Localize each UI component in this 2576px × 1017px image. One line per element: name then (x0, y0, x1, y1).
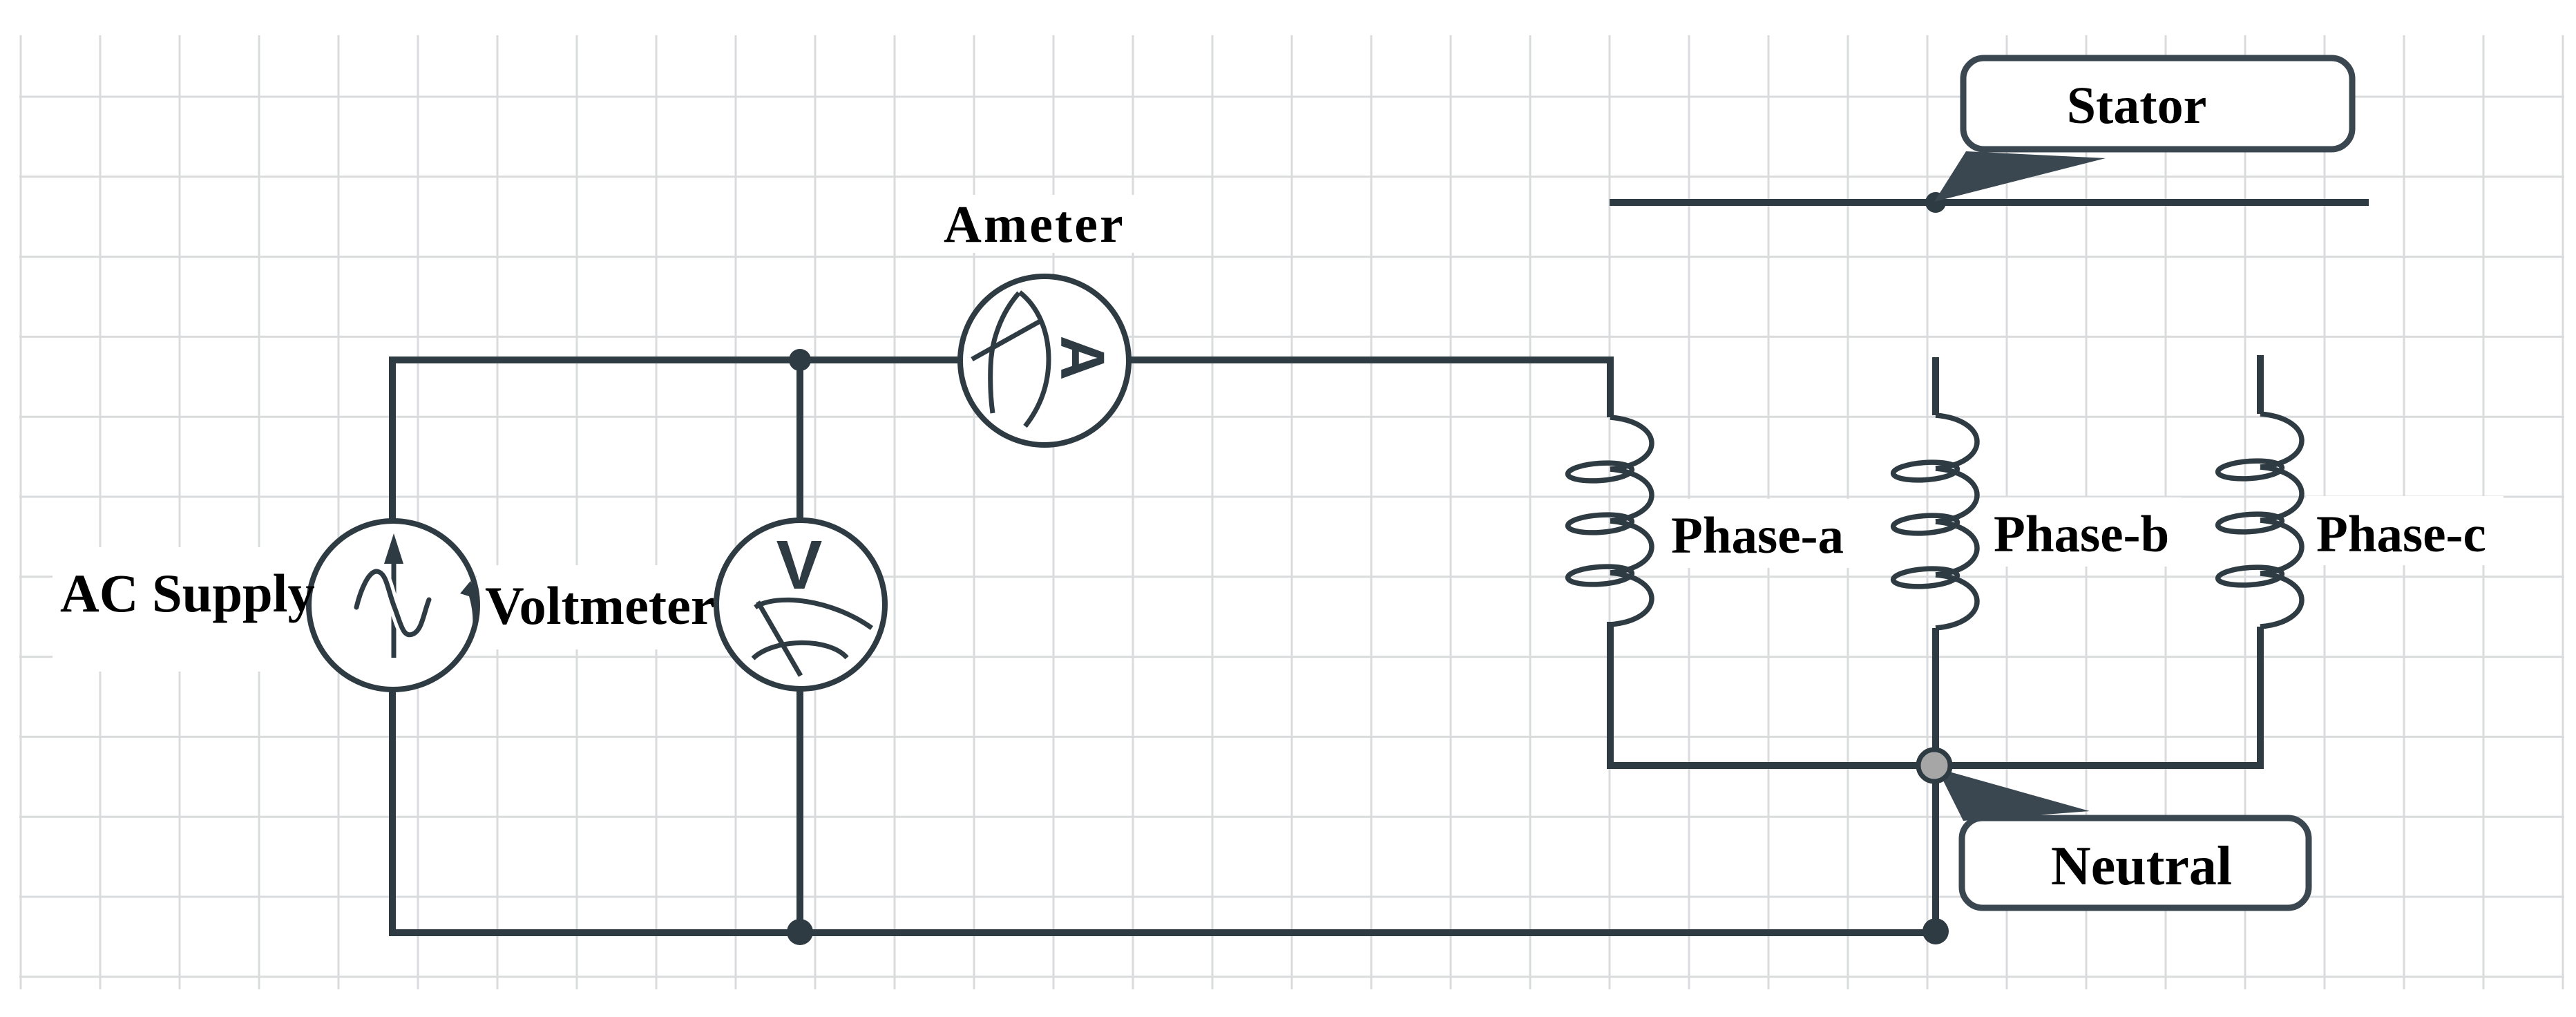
voltmeter scale arc upper (755, 600, 872, 628)
stator line (1610, 199, 2369, 206)
neutral callout pointer (1937, 768, 2090, 821)
stator callout box (1963, 58, 2352, 149)
ammeter needle (972, 320, 1042, 359)
svg-text:Stator: Stator (2067, 77, 2207, 135)
label background Phase-a (1660, 499, 1856, 568)
coil Phase-a (1567, 417, 1652, 625)
AC sine wave (356, 571, 429, 635)
wire phase-c bottom drop (1934, 627, 2260, 766)
ammeter scale arc outer (1020, 292, 1049, 426)
coil Phase-b (1893, 415, 1977, 628)
coil Phase-c (2217, 414, 2302, 627)
wire AC supply left branch vertical (389, 357, 396, 933)
svg-text:AC Supply: AC Supply (60, 563, 315, 623)
ammeter circle (960, 276, 1129, 445)
wire phase-a bottom drop (1610, 622, 1934, 766)
neutral callout box (1962, 818, 2309, 908)
AC circle edge arrowhead (460, 581, 479, 638)
ammeter scale arc inner (991, 293, 1019, 413)
label background Phase-b (1981, 497, 2182, 567)
wire top horizontal from AC supply to Phase-a corner (392, 357, 1610, 363)
svg-text:Phase-b: Phase-b (1994, 506, 2169, 563)
AC arrow shaft (392, 563, 397, 658)
wire phase-a top drop (1607, 357, 1614, 417)
label background Ameter (931, 195, 1138, 253)
svg-text:A: A (1047, 336, 1116, 381)
wire phase-b top stub (1932, 357, 1939, 415)
junction dot voltmeter bottom (787, 919, 813, 945)
wire neutral junction to bottom (1932, 766, 1939, 931)
voltmeter needle (758, 602, 801, 676)
voltmeter scale arc lower (753, 643, 847, 658)
neutral junction dot (1918, 750, 1950, 781)
label background Voltmeter (477, 565, 718, 649)
wire phase-c top stub (2257, 355, 2264, 414)
AC arrowhead (384, 533, 403, 564)
wire phase-b bottom drop (1932, 628, 1939, 766)
svg-text:Neutral: Neutral (2051, 836, 2232, 897)
stator callout pointer (1934, 151, 2106, 202)
junction dot voltmeter top (789, 349, 811, 371)
voltmeter circle (716, 520, 885, 689)
svg-text:Phase-c: Phase-c (2316, 506, 2486, 563)
svg-text:Voltmeter: Voltmeter (485, 576, 715, 636)
junction dot bottom right (1923, 918, 1949, 944)
svg-text:Phase-a: Phase-a (1671, 507, 1844, 564)
AC source circle (309, 521, 479, 690)
label background AC Supply (53, 547, 325, 672)
wire bottom horizontal (389, 929, 1936, 936)
svg-text:Ameter: Ameter (944, 196, 1125, 254)
wire voltmeter branch vertical (796, 360, 803, 933)
svg-text:V: V (776, 526, 823, 604)
stator line dot (1925, 192, 1946, 213)
label background Phase-c (2306, 496, 2503, 565)
